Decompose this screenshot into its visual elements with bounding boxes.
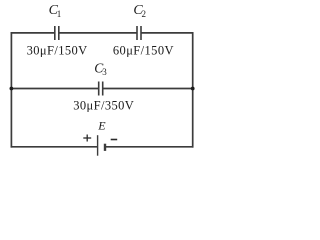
svg-text:60μF/150V: 60μF/150V: [113, 43, 174, 57]
svg-text:E: E: [97, 119, 106, 133]
battery plus sign: [83, 135, 91, 142]
svg-text:C3: C3: [94, 60, 107, 77]
node right junction: [191, 87, 195, 91]
wire left edge: [10, 32, 12, 148]
wire bottom-left segment: [11, 146, 98, 148]
svg-text:C1: C1: [49, 3, 62, 19]
svg-text:30μF/150V: 30μF/150V: [27, 43, 88, 57]
wire top-right segment: [141, 32, 194, 34]
wire middle-left segment: [11, 88, 99, 90]
wire bottom-right segment: [105, 146, 194, 148]
battery E: [98, 135, 105, 156]
node left junction: [10, 87, 14, 91]
wire top-left segment: [11, 32, 55, 34]
wire top-middle segment: [59, 32, 137, 34]
svg-text:30μF/350V: 30μF/350V: [73, 99, 134, 113]
wire right edge: [192, 32, 194, 148]
battery minus sign: [111, 139, 118, 141]
svg-text:C2: C2: [133, 3, 146, 19]
capacitor C2: [136, 26, 138, 40]
capacitor C3: [98, 82, 100, 96]
wire middle-right segment: [103, 88, 194, 90]
capacitor C1: [54, 26, 56, 40]
